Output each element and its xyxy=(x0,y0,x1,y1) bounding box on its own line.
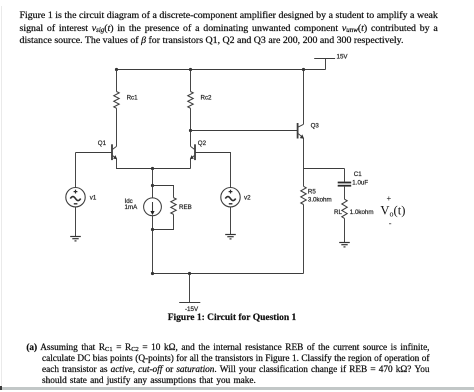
scan artifact: faint left edge line xyxy=(1,6,2,386)
node junction Q3 collector at rail xyxy=(302,68,305,71)
svg-text:R5: R5 xyxy=(308,188,316,195)
wire emitter to C1 xyxy=(304,168,345,170)
wire top rail xyxy=(117,69,326,71)
svg-text:3.0kohm: 3.0kohm xyxy=(308,196,332,203)
resistor RL xyxy=(334,187,374,219)
scan artifact: left edge dark blob xyxy=(0,386,2,390)
ground below v2 xyxy=(225,235,236,239)
wire junction to REB top xyxy=(153,186,174,198)
node bottom rail left junction xyxy=(151,272,154,275)
part (a) paragraph xyxy=(42,343,430,387)
current source Idc xyxy=(125,186,162,216)
resistor Rc1 xyxy=(114,70,138,109)
resistor Rc2 xyxy=(188,70,212,109)
transistor Q1 xyxy=(98,140,117,160)
figure caption xyxy=(0,312,464,324)
resistor REB xyxy=(171,198,192,215)
wire Q3 collector to rail xyxy=(303,70,305,125)
wire Rc1 to Q1 collector xyxy=(116,108,118,146)
svg-text:RL: RL xyxy=(334,209,342,216)
wire emitter node to Idc xyxy=(152,169,154,186)
svg-text:1.0uF: 1.0uF xyxy=(352,180,368,187)
svg-text:Q1: Q1 xyxy=(98,140,107,147)
wire Q2 base to v2 xyxy=(195,153,231,188)
svg-text:1.0kohm: 1.0kohm xyxy=(350,209,374,216)
svg-text:v1: v1 xyxy=(90,194,97,201)
transistor Q3 xyxy=(298,123,320,139)
wire Q2 collector xyxy=(190,131,192,147)
transistor Q2 xyxy=(190,140,207,160)
source v1 xyxy=(66,153,97,207)
node Idc top junction xyxy=(151,184,154,187)
capacitor C1 xyxy=(338,169,369,187)
svg-text:-: - xyxy=(389,219,392,229)
output label Vo(t) xyxy=(380,194,405,229)
scan artifact: grey streak xyxy=(0,387,474,390)
wire down to bottom rail xyxy=(152,230,154,274)
wire Rc2 to collector node xyxy=(190,108,192,130)
source v2 xyxy=(221,188,251,207)
wire node to Q3 base xyxy=(191,130,298,132)
svg-text:Rc1: Rc1 xyxy=(127,94,139,101)
wire R5 to bottom rail xyxy=(303,205,305,274)
power 15V supply xyxy=(314,54,348,70)
wire Q2 emitter down xyxy=(190,159,192,169)
ground below v1 xyxy=(70,237,81,241)
wire RL to ground xyxy=(344,218,346,242)
svg-text:Q2: Q2 xyxy=(198,140,207,147)
power -15V supply xyxy=(179,274,200,314)
node junction top of Rc2 xyxy=(189,68,192,71)
node emitter rail junction xyxy=(151,167,154,170)
svg-text:Vo(t): Vo(t) xyxy=(380,204,405,219)
wire v1 to ground xyxy=(75,207,77,237)
node Rc2 bottom junction xyxy=(189,129,192,132)
top paragraph xyxy=(20,10,438,48)
wire bottom rail xyxy=(153,273,304,275)
wire Q1 emitter to shared rail xyxy=(117,159,191,169)
node Idc bottom junction xyxy=(151,228,154,231)
svg-text:C1: C1 xyxy=(354,171,362,178)
node bottom rail -15V junction xyxy=(188,272,191,275)
wire Idc to bottom junction xyxy=(152,216,154,230)
svg-text:+: + xyxy=(387,194,392,203)
resistor R5 xyxy=(301,186,332,204)
svg-text:Rc2: Rc2 xyxy=(201,94,213,101)
svg-text:REB: REB xyxy=(179,204,192,211)
wire v2 to ground xyxy=(230,207,232,235)
wire Q1 base xyxy=(76,152,113,154)
ground below RL xyxy=(339,243,350,247)
wire REB bottom xyxy=(153,214,174,229)
svg-text:v2: v2 xyxy=(244,194,251,201)
svg-text:Q3: Q3 xyxy=(311,123,320,130)
wire Q3 emitter down xyxy=(303,138,305,186)
svg-text:15V: 15V xyxy=(337,54,349,61)
node junction top of Rc1 xyxy=(115,68,118,71)
svg-text:1mA: 1mA xyxy=(125,204,139,211)
